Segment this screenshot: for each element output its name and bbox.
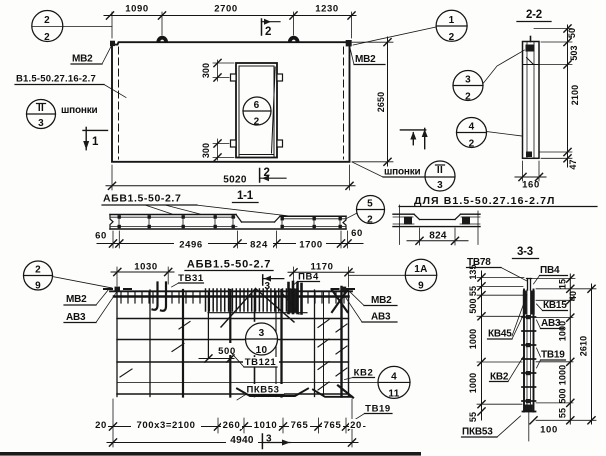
jog marks — [318, 320, 329, 328]
svg-text:КВ15: КВ15 — [543, 300, 567, 311]
extension lines right — [534, 28, 572, 30]
door opening inner — [239, 66, 274, 158]
svg-text:500: 500 — [468, 298, 478, 313]
svg-text:1000: 1000 — [558, 365, 568, 385]
svg-text:В1.5-50.27.16-2.7: В1.5-50.27.16-2.7 — [16, 74, 96, 85]
right fragment — [461, 213, 481, 215]
svg-text:ДЛЯ В1.5-50.27.16-2.7Л: ДЛЯ В1.5-50.27.16-2.7Л — [414, 195, 556, 207]
svg-text:55: 55 — [468, 412, 478, 422]
MB2 dashes right corner — [332, 288, 339, 290]
svg-text:9: 9 — [35, 281, 41, 292]
callout 1/2 — [436, 10, 467, 41]
right block top — [280, 215, 346, 217]
callout 6/2 — [243, 97, 271, 125]
svg-text:5: 5 — [367, 199, 373, 210]
embed MB2 top-left corner — [110, 41, 115, 46]
svg-text:шпонки: шпонки — [384, 167, 421, 178]
top hatch ticks dense — [206, 289, 302, 311]
loop TV31 — [153, 283, 158, 310]
svg-text:1: 1 — [92, 136, 99, 148]
svg-text:3: 3 — [38, 118, 44, 129]
section mark 2 bottom — [259, 169, 261, 183]
outer dim 2610 — [591, 284, 593, 424]
svg-text:ТВ31: ТВ31 — [178, 273, 204, 284]
svg-text:824: 824 — [250, 240, 268, 251]
callout 4/2 — [457, 118, 487, 148]
svg-text:260: 260 — [223, 420, 241, 431]
svg-text:4: 4 — [469, 122, 475, 133]
svg-text:МВ2: МВ2 — [355, 54, 376, 65]
chamfer right — [275, 216, 281, 222]
column inner walls — [526, 42, 528, 158]
right extension lines — [531, 278, 575, 280]
svg-text:47: 47 — [568, 159, 578, 169]
door tab bottom-right — [277, 140, 283, 147]
left vertical line — [399, 205, 401, 245]
svg-text:ТВ121: ТВ121 — [245, 357, 277, 368]
svg-text:шпонки: шпонки — [61, 105, 98, 116]
svg-text:10: 10 — [256, 345, 268, 356]
dim extensions — [112, 231, 114, 248]
bottom dim extensions — [112, 399, 114, 447]
svg-text:1-1: 1-1 — [237, 190, 254, 202]
dim 824 — [247, 239, 273, 249]
bottom dim 5020 extensions — [111, 165, 113, 190]
svg-text:2: 2 — [44, 32, 50, 43]
door opening outer — [236, 63, 277, 158]
rungs — [522, 317, 536, 401]
dim 1170 — [288, 271, 354, 273]
label TV121 — [243, 357, 279, 367]
svg-text:3: 3 — [465, 75, 471, 86]
svg-text:2: 2 — [465, 92, 471, 103]
callout 1A/9 — [405, 259, 436, 290]
svg-text:2: 2 — [264, 167, 270, 179]
svg-text:2496: 2496 — [179, 240, 203, 251]
hidden edge right (dashed) — [343, 47, 345, 159]
bottom embed black — [526, 152, 532, 158]
section mark 2 top — [261, 19, 263, 35]
svg-text:40: 40 — [568, 291, 578, 301]
svg-text:765: 765 — [291, 420, 309, 431]
extension line left end — [111, 12, 113, 38]
bottom dim line 1 — [106, 426, 365, 428]
svg-text:300: 300 — [201, 63, 211, 78]
svg-text:11: 11 — [388, 389, 399, 400]
svg-text:КВ2: КВ2 — [354, 368, 374, 379]
chamfer — [527, 58, 534, 65]
hidden edge left (dashed) — [118, 47, 120, 159]
svg-text:II: II — [437, 165, 443, 176]
svg-text:824: 824 — [429, 231, 447, 242]
rebar dividers — [119, 215, 340, 229]
bottom dim 100 — [530, 417, 537, 424]
dim 1700 — [296, 239, 326, 249]
top dimension line — [104, 15, 356, 17]
door dim 300 lower — [217, 139, 219, 160]
callout 4/11 — [378, 366, 410, 398]
callout II/3 right — [425, 161, 455, 191]
svg-text:1030: 1030 — [134, 262, 158, 273]
svg-text:2610: 2610 — [579, 336, 589, 356]
section mark 1 left — [83, 129, 108, 131]
MB2 dashes left corner — [104, 288, 112, 290]
right dim 2650 extension bottom — [352, 161, 393, 163]
svg-text:3: 3 — [259, 328, 265, 339]
callout 5/2 — [357, 196, 385, 224]
door tab top-right — [277, 74, 283, 81]
svg-text:20: 20 — [350, 420, 362, 431]
left end keyway — [110, 215, 113, 230]
svg-text:ТВ19: ТВ19 — [541, 350, 565, 361]
column bottom — [523, 411, 536, 413]
svg-text:МВ2: МВ2 — [66, 294, 87, 305]
svg-text:2100: 2100 — [570, 85, 580, 105]
bottom dim texts — [94, 419, 363, 431]
svg-text:2: 2 — [469, 139, 475, 150]
left dim chain — [481, 271, 483, 420]
svg-text:МВ2: МВ2 — [371, 295, 392, 306]
svg-text:2: 2 — [449, 32, 455, 43]
column verticals — [523, 290, 525, 412]
column outline — [523, 42, 540, 159]
svg-text:АВ3: АВ3 — [371, 312, 391, 323]
svg-text:1000: 1000 — [468, 373, 478, 393]
svg-text:60: 60 — [95, 231, 107, 242]
recess chamfers and top — [414, 214, 420, 219]
svg-text:20: 20 — [95, 420, 107, 431]
svg-text:1230: 1230 — [315, 4, 339, 15]
KV15 dark strips — [523, 291, 527, 315]
svg-text:1090: 1090 — [125, 4, 149, 15]
svg-text:II: II — [38, 103, 44, 114]
svg-text:2: 2 — [35, 265, 41, 276]
svg-text:5020: 5020 — [223, 175, 247, 186]
svg-text:503: 503 — [569, 45, 579, 60]
door tab bottom-left — [231, 140, 237, 147]
svg-text:АВ3: АВ3 — [66, 312, 86, 323]
svg-text:ПВ4: ПВ4 — [298, 272, 319, 283]
svg-text:100: 100 — [540, 425, 558, 436]
svg-text:300: 300 — [201, 143, 211, 158]
svg-text:765: 765 — [324, 420, 342, 431]
svg-text:3: 3 — [437, 180, 443, 191]
PV4 loop legs top — [527, 279, 529, 291]
svg-text:50: 50 — [567, 28, 577, 38]
svg-text:3-3: 3-3 — [517, 246, 533, 258]
extension line loop2 — [293, 12, 295, 35]
svg-text:55: 55 — [468, 286, 478, 296]
section mark 3 bottom — [261, 434, 263, 449]
svg-text:55: 55 — [558, 408, 568, 418]
top hatch ticks sparse — [121, 292, 344, 303]
mesh horizontal bars — [110, 290, 352, 292]
svg-text:1700: 1700 — [299, 240, 323, 251]
right inner dim chain — [569, 274, 571, 424]
strip bottom edge — [110, 228, 346, 230]
callout 3/2 — [453, 71, 483, 101]
svg-text:500: 500 — [558, 388, 568, 403]
svg-text:АБВ1.5-50-2.7: АБВ1.5-50-2.7 — [103, 193, 181, 205]
svg-text:1А: 1А — [414, 264, 427, 275]
rebar squares left block — [118, 215, 342, 228]
diagonal braces — [221, 289, 256, 328]
mesh vertical bars — [116, 290, 118, 397]
dim line — [97, 243, 363, 245]
left extension lines — [477, 277, 524, 279]
callout 2/9 — [24, 261, 53, 290]
svg-text:КВ2: КВ2 — [490, 372, 509, 383]
svg-text:3: 3 — [266, 434, 272, 445]
left block inner lines — [111, 216, 235, 218]
door diagonal — [272, 67, 276, 153]
right end keyway — [343, 216, 346, 229]
bottom dim 160 — [522, 161, 524, 181]
svg-text:2: 2 — [265, 26, 271, 38]
callout II/3 left — [27, 100, 56, 129]
door inner bottom line — [239, 154, 274, 156]
svg-text:2700: 2700 — [214, 4, 238, 15]
protruding bar top — [530, 37, 532, 42]
top dim ticks — [106, 12, 113, 19]
panel outline — [112, 42, 350, 162]
dim line right — [567, 25, 569, 167]
svg-text:2: 2 — [254, 117, 260, 128]
svg-text:ТВ78: ТВ78 — [467, 257, 491, 268]
left block top — [110, 214, 236, 216]
hatch zone bottom line — [208, 312, 307, 314]
loop bundle PV4 — [288, 289, 298, 313]
svg-text:2-2: 2-2 — [526, 9, 542, 21]
callout 3/10 — [246, 323, 278, 355]
bottom scan band — [0, 452, 421, 456]
svg-text:КВ45: КВ45 — [488, 329, 512, 340]
dim 1030 — [111, 271, 174, 273]
svg-text:60: 60 — [351, 228, 363, 239]
X brace top right — [332, 290, 348, 312]
section mark 1 right (two arrows) — [400, 129, 425, 131]
svg-text:МВ2: МВ2 — [72, 54, 93, 65]
svg-text:1010: 1010 — [254, 420, 278, 431]
svg-text:АБВ1.5-50-2.7: АБВ1.5-50-2.7 — [187, 259, 271, 271]
svg-text:6: 6 — [254, 100, 260, 111]
svg-text:2650: 2650 — [376, 92, 386, 112]
svg-text:ПВ4: ПВ4 — [540, 265, 560, 276]
svg-text:ПКВ53: ПКВ53 — [462, 427, 493, 438]
svg-text:1000: 1000 — [468, 329, 478, 349]
top embed black — [526, 45, 535, 52]
dim 2496 — [174, 239, 208, 249]
lifting loop right — [288, 36, 299, 42]
embed MB2 top-right corner — [346, 40, 352, 46]
dim line 2650 — [387, 37, 389, 166]
svg-text:2: 2 — [44, 15, 50, 26]
svg-text:ТВ19: ТВ19 — [365, 404, 391, 415]
callout 2/2 — [32, 11, 63, 42]
section mark 3 top — [262, 275, 264, 285]
dim 824 — [419, 228, 421, 245]
right vertical line — [477, 211, 479, 245]
svg-text:160: 160 — [522, 180, 540, 191]
rung node squares — [526, 315, 531, 403]
bottom dim line 2 (4940) — [107, 442, 358, 444]
svg-text:9: 9 — [418, 281, 424, 292]
inner line — [523, 64, 540, 66]
svg-text:15: 15 — [558, 279, 568, 289]
svg-text:4940: 4940 — [230, 435, 254, 446]
svg-text:700x3=2100: 700x3=2100 — [136, 420, 195, 431]
svg-text:2: 2 — [367, 215, 373, 226]
right dim 2650 extension top — [352, 41, 393, 43]
right block inner lines — [281, 218, 345, 220]
extension line loop1 — [161, 12, 163, 35]
recess top — [242, 221, 275, 223]
svg-text:ПКВ53: ПКВ53 — [246, 385, 279, 396]
dim 500 — [216, 343, 238, 355]
extension line right end — [351, 12, 353, 38]
dim line 5020 — [106, 185, 355, 187]
chamfer left — [236, 215, 242, 223]
door dim 300 upper — [217, 60, 219, 81]
left fragment — [393, 213, 414, 215]
door tab top-left — [231, 74, 237, 81]
svg-text:1000: 1000 — [558, 321, 568, 341]
label PKV53 — [244, 384, 284, 394]
svg-text:1: 1 — [449, 15, 455, 26]
bent bars bottom — [237, 389, 308, 397]
lifting loop left — [157, 36, 168, 42]
svg-text:4: 4 — [391, 372, 397, 383]
